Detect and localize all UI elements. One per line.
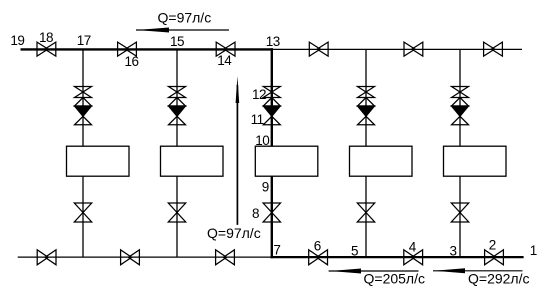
svg-text:16: 16 <box>125 54 139 69</box>
wire: top supply main (bold, node 19 to node 13) <box>21 48 274 50</box>
svg-text:1: 1 <box>530 243 537 258</box>
wire: riser node 13 to node 7 (bold vertical) <box>271 48 273 258</box>
check valve on branch 3 (valve 11 on riser) <box>263 98 280 107</box>
wire: branch 1 vertical lower segment <box>82 176 84 257</box>
svg-text:5: 5 <box>351 244 358 259</box>
wire: top main thin continuation (node 13 to right end) <box>272 48 522 50</box>
heat exchanger box 1 <box>67 146 130 176</box>
svg-text:8: 8 <box>252 206 259 221</box>
flow arrow bottom left (points left, Q=205) <box>329 270 419 272</box>
svg-text:15: 15 <box>170 34 184 49</box>
wire: branch 5 vertical lower segment <box>459 176 461 257</box>
wire: branch 4 vertical lower segment <box>365 176 367 257</box>
check valve on branch 5 <box>452 98 469 107</box>
valve on top main (unlabeled, right of 13) <box>309 42 320 56</box>
valve 16 <box>118 42 129 56</box>
gate valve on branch 3 lower (valve 8 on riser) <box>263 203 280 213</box>
svg-text:19: 19 <box>10 33 24 48</box>
flow arrow top (points left) with line <box>136 29 229 31</box>
wire: branch 2 vertical upper segment <box>176 49 178 146</box>
wire: bottom main thin (left end to node 7) <box>18 256 272 258</box>
valve 2 <box>485 250 496 265</box>
svg-text:6: 6 <box>314 238 321 253</box>
svg-text:3: 3 <box>450 243 457 258</box>
svg-text:10: 10 <box>255 133 269 148</box>
gate valve on branch 3 upper (valve 12 on riser) <box>263 87 280 93</box>
gate valve on branch 5 lower <box>451 203 468 213</box>
valve on top main (unlabeled, far right) <box>484 42 495 56</box>
valve on top main (unlabeled, mid right) <box>404 42 415 56</box>
gate valve on branch 2 upper <box>169 87 186 93</box>
check valve on branch 2 <box>169 98 186 107</box>
wire: branch 1 vertical upper segment <box>82 49 84 146</box>
wire: branch 5 vertical upper segment <box>459 49 461 146</box>
svg-text:4: 4 <box>409 240 417 255</box>
heat exchanger box 3 <box>255 146 317 176</box>
heat exchanger box 4 <box>350 146 413 176</box>
svg-text:Q=205л/с: Q=205л/с <box>364 271 425 287</box>
gate valve on branch 4 lower <box>357 203 374 213</box>
svg-text:Q=292л/с: Q=292л/с <box>468 271 529 287</box>
svg-text:11: 11 <box>251 112 264 127</box>
gate valve on branch 4 upper <box>358 87 375 93</box>
valve 4 <box>404 250 415 265</box>
gate valve on branch 5 upper <box>452 87 469 93</box>
svg-text:12: 12 <box>252 87 266 102</box>
svg-text:17: 17 <box>77 33 91 48</box>
valve on bottom main (unlabeled, mid) <box>216 250 227 265</box>
svg-text:13: 13 <box>266 34 280 49</box>
wire: bottom supply main (bold, node 7 to node 1) <box>271 256 524 258</box>
flow arrow vertical riser (points up) <box>236 85 238 225</box>
svg-text:Q=97л/с: Q=97л/с <box>207 225 261 241</box>
valve 14 <box>216 42 227 56</box>
gate valve on branch 2 lower <box>168 203 185 213</box>
heat exchanger box 2 <box>161 146 224 176</box>
valve on bottom main (unlabeled, left) <box>121 250 132 265</box>
heat exchanger box 5 <box>444 146 507 176</box>
valve 18 <box>37 42 48 56</box>
valve on bottom main (unlabeled, far left) <box>37 250 48 265</box>
flow arrow bottom right (points left, Q=292) <box>433 270 523 272</box>
check valve on branch 4 <box>358 98 375 107</box>
svg-text:2: 2 <box>489 237 496 252</box>
check valve on branch 1 <box>75 98 92 107</box>
svg-text:Q=97л/с: Q=97л/с <box>158 9 212 25</box>
valve 6 <box>309 250 320 265</box>
gate valve on branch 1 lower <box>74 203 91 213</box>
svg-text:7: 7 <box>273 243 280 258</box>
wire: branch 2 vertical lower segment <box>176 176 178 257</box>
svg-text:9: 9 <box>262 179 269 194</box>
svg-text:14: 14 <box>217 53 232 68</box>
gate valve on branch 1 upper <box>75 87 92 93</box>
wire: branch 4 vertical upper segment <box>365 49 367 146</box>
svg-text:18: 18 <box>39 30 53 45</box>
